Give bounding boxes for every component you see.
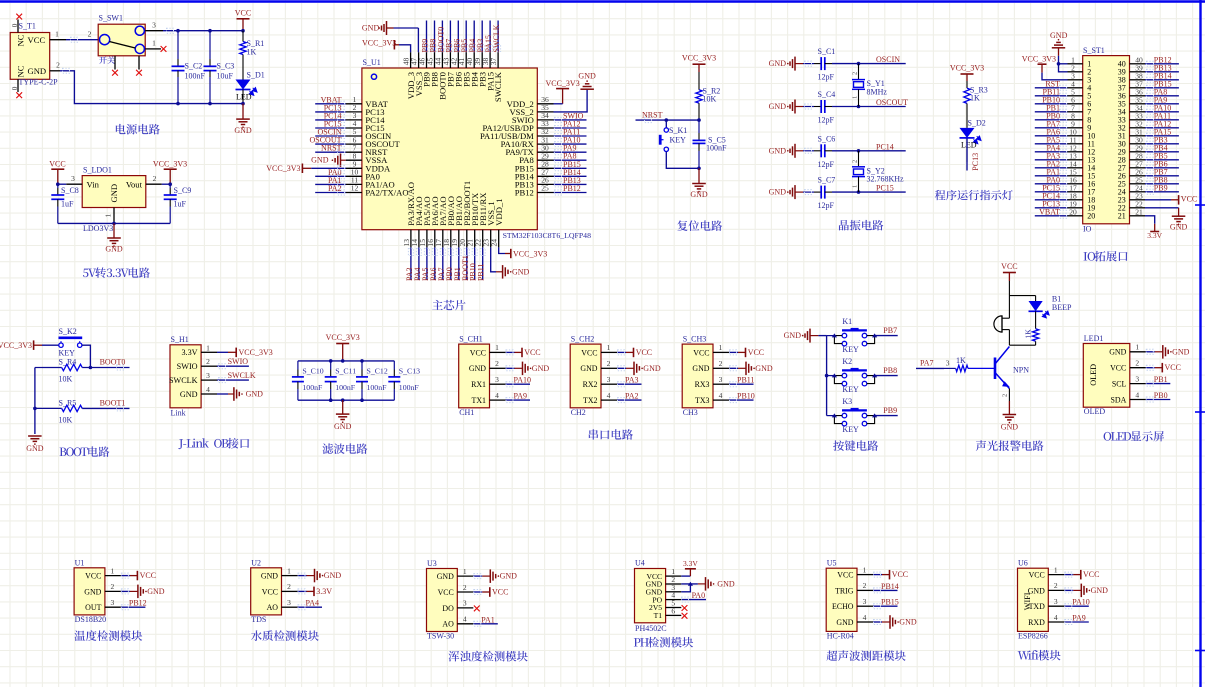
svg-text:10K: 10K: [59, 375, 73, 384]
svg-text:21: 21: [1135, 207, 1143, 216]
svg-text:GND: GND: [690, 190, 708, 199]
wire net PB5 vertical: [465, 21, 467, 53]
svg-text:S_C9: S_C9: [174, 186, 192, 195]
mcu pin 8 VSSA: [346, 159, 362, 161]
ST1 pin 8: [1068, 119, 1083, 121]
ST1 pin 12: [1068, 151, 1083, 153]
wire net PA7: [1035, 127, 1068, 129]
wire SWIO: [217, 365, 249, 367]
S_CH1 pin 1 VCC: [490, 351, 506, 353]
mcu top pin 40 PB4: [473, 52, 475, 68]
svg-text:Link: Link: [171, 409, 186, 418]
svg-text:NRST: NRST: [321, 144, 342, 153]
power VCC U1 pin1: [121, 575, 130, 577]
led S_D1: [242, 55, 244, 80]
wire net PA8: [1145, 95, 1179, 97]
svg-text:VCC: VCC: [1181, 194, 1197, 203]
wire net OSCIN: [315, 135, 346, 137]
ldo ground rail wire: [58, 222, 170, 224]
svg-text:K1: K1: [842, 317, 852, 326]
svg-text:PH4502C: PH4502C: [635, 624, 667, 633]
svg-text:3: 3: [1135, 374, 1139, 383]
wire net PB1: [1146, 383, 1171, 385]
U6 pin 3 TXD: [1048, 605, 1064, 607]
svg-text:KEY: KEY: [842, 385, 859, 394]
wire net PB7: [1145, 175, 1179, 177]
ST1 pin 32: [1130, 127, 1146, 129]
svg-text:DO: DO: [442, 604, 454, 613]
svg-text:S_CH1: S_CH1: [459, 335, 483, 344]
svg-text:1: 1: [206, 343, 210, 352]
wire vcc to key K2: [42, 344, 59, 346]
mcu bottom pin 20 PB2/BOOT1: [466, 230, 468, 248]
SW1 bottom pin a: [114, 56, 116, 70]
svg-text:S_C1: S_C1: [818, 47, 836, 56]
svg-text:S_C7: S_C7: [818, 176, 836, 185]
ST1 pin 4: [1068, 87, 1083, 89]
svg-text:HC-R04: HC-R04: [827, 631, 854, 640]
ST1 pin 31: [1130, 135, 1146, 137]
capacitor S_C7: [803, 191, 814, 193]
title 晶振电路: [839, 220, 849, 230]
wire net PA6 vertical: [434, 247, 436, 280]
power VCC_3V3 at VDD_1: [505, 253, 511, 255]
U3 pin 3 DO: [457, 607, 473, 609]
ST1 pin 33: [1130, 119, 1146, 121]
svg-text:GND: GND: [717, 580, 735, 589]
S_CH3 pin 2 GND: [713, 367, 729, 369]
title OLED显示屏: [1104, 432, 1112, 441]
S_T1 VCC pin 1: [50, 39, 66, 41]
wire net BOOT0 vertical: [441, 21, 443, 53]
svg-text:SWCLK: SWCLK: [169, 376, 198, 385]
svg-text:GND: GND: [1001, 423, 1019, 432]
svg-text:VCC: VCC: [581, 348, 597, 357]
wire K1 to PB7: [875, 335, 898, 337]
ST1 pin 35: [1130, 103, 1146, 105]
title 按键电路: [833, 440, 844, 451]
svg-text:GND: GND: [246, 390, 264, 399]
svg-text:1: 1: [111, 566, 115, 575]
power VCC LED1 pin2: [1146, 367, 1155, 369]
svg-text:VCC: VCC: [524, 348, 540, 357]
wire net PA0: [315, 175, 346, 177]
switch 开关 label: [99, 56, 107, 63]
svg-text:PB10: PB10: [737, 392, 755, 401]
svg-text:VCC: VCC: [636, 348, 652, 357]
junction vout: [168, 182, 172, 186]
svg-text:GND: GND: [105, 245, 123, 254]
mcu pin 25 PB12: [537, 192, 553, 194]
S_CH1 pin 4 TX1: [490, 399, 506, 401]
connector U6 body: [1018, 568, 1049, 631]
svg-text:1K: 1K: [247, 48, 257, 57]
ground GND U2 pin1: [298, 575, 307, 577]
U6 pin 1 VCC: [1048, 574, 1064, 576]
svg-text:LDO3V3: LDO3V3: [83, 224, 113, 233]
svg-text:12pF: 12pF: [818, 73, 835, 82]
mcu pin 29 PA8: [537, 159, 553, 161]
title 电源电路: [116, 124, 126, 134]
svg-text:12pF: 12pF: [818, 116, 835, 125]
svg-text:VCC_3V3: VCC_3V3: [153, 160, 187, 169]
title 主芯片: [432, 300, 443, 310]
wire net PB12: [1145, 63, 1179, 65]
S_T1 bottom pin 0: [17, 79, 19, 92]
svg-text:GND: GND: [147, 587, 165, 596]
ground GND at VSS_1: [496, 271, 503, 273]
svg-text:20: 20: [1087, 212, 1095, 221]
wire OSCOUT: [832, 106, 906, 108]
svg-text:4: 4: [495, 391, 499, 400]
svg-text:21: 21: [1118, 212, 1126, 221]
title Wifi模块: [1018, 651, 1030, 659]
U4 pin 1 VCC: [666, 575, 682, 577]
mcu top pin 41 PB5: [465, 52, 467, 68]
title BOOT电路: [60, 448, 67, 456]
S_T1 GND pin 2: [50, 70, 60, 72]
svg-text:1: 1: [852, 96, 859, 99]
svg-text:GND: GND: [692, 364, 709, 373]
svg-text:VBAT: VBAT: [1039, 207, 1060, 216]
svg-text:PB1: PB1: [1154, 375, 1168, 384]
svg-text:Vout: Vout: [126, 179, 143, 189]
svg-text:VCC: VCC: [85, 572, 101, 581]
no connect x bottom: [16, 92, 22, 98]
ground GND ldo: [113, 223, 115, 238]
ST1 pin 29: [1130, 151, 1146, 153]
svg-text:VCC: VCC: [470, 348, 486, 357]
svg-text:2: 2: [1002, 394, 1009, 397]
crystal S_Y2: [858, 151, 860, 167]
wire K2 to PB8: [875, 375, 898, 377]
S_CH2 pin 3 RX2: [601, 383, 617, 385]
led S_D2: [966, 103, 968, 128]
wire BOOT0 net: [82, 367, 129, 369]
SW1 bottom pin b: [138, 56, 140, 70]
wire net PB11: [729, 383, 754, 385]
connector U5 body: [826, 568, 857, 631]
svg-text:24: 24: [490, 239, 499, 247]
svg-text:VCC: VCC: [693, 348, 709, 357]
svg-text:KEY: KEY: [670, 136, 687, 145]
svg-text:GND: GND: [180, 390, 198, 399]
connector S_CH2 body: [570, 344, 601, 408]
svg-text:TX1: TX1: [472, 396, 487, 405]
svg-text:VCC: VCC: [49, 160, 65, 169]
svg-text:0: 0: [11, 86, 19, 90]
wire net PC15: [315, 127, 346, 129]
wire SW1.3 to VCC rail: [163, 30, 243, 32]
junction y1 bottom: [857, 105, 861, 109]
svg-text:U3: U3: [427, 559, 437, 568]
svg-text:S_LDO1: S_LDO1: [83, 166, 112, 175]
wire net PA10: [506, 383, 531, 385]
svg-text:3: 3: [152, 21, 156, 30]
ST1 pin 30: [1130, 143, 1146, 145]
svg-text:S_C8: S_C8: [61, 186, 79, 195]
title 串口电路: [589, 429, 598, 440]
svg-text:PB12: PB12: [515, 188, 534, 198]
svg-text:RX1: RX1: [471, 380, 486, 389]
svg-text:GND: GND: [1028, 586, 1045, 595]
junction y2 top: [857, 149, 861, 153]
wire net PB7 vertical: [449, 21, 451, 53]
svg-text:PA2: PA2: [625, 392, 639, 401]
U4 pin 4 PO: [666, 599, 682, 601]
power VCC S_CH2 pin1: [617, 351, 626, 353]
ST1 pin 11: [1068, 143, 1083, 145]
S_CH1 pin 3 RX1: [490, 383, 506, 385]
LED1 pin 2 VCC: [1130, 367, 1146, 369]
resistor S_R3: [966, 81, 968, 88]
wire net PA5 vertical: [426, 247, 428, 280]
svg-text:1: 1: [55, 30, 59, 39]
svg-text:S_C11: S_C11: [335, 366, 356, 375]
mcu bottom pin 17 PA7/AO: [442, 230, 444, 248]
U5 pin 2 TRIG: [857, 589, 873, 591]
svg-text:1uF: 1uF: [61, 200, 74, 209]
mcu bottom pin 23 VSS_1: [490, 230, 492, 248]
mcu pin 33 PA12/USB/DP: [537, 127, 553, 129]
capacitor S_C6: [803, 150, 814, 152]
svg-text:S_C12: S_C12: [367, 366, 388, 375]
ST1 pin 13: [1068, 159, 1083, 161]
svg-text:ECHO: ECHO: [832, 602, 854, 611]
svg-text:PC15: PC15: [876, 184, 894, 193]
ground GND U1 pin2: [121, 590, 130, 592]
svg-text:S_C13: S_C13: [399, 366, 420, 375]
svg-text:3: 3: [495, 375, 499, 384]
svg-text:GND: GND: [469, 364, 486, 373]
mcu top pin 42 PB6: [457, 52, 459, 68]
capacitor S_C9: [169, 184, 171, 188]
svg-text:100nF: 100nF: [302, 383, 323, 392]
mcu pin 4 PC15: [346, 127, 362, 129]
junction D1 gnd rail: [241, 102, 245, 106]
wire net PB4: [1145, 151, 1179, 153]
svg-text:S_C6: S_C6: [818, 134, 836, 143]
svg-text:VCC: VCC: [262, 587, 278, 596]
resistor S_R2: [698, 72, 700, 90]
wire net OSCOUT: [315, 143, 346, 145]
svg-text:GND: GND: [769, 102, 787, 111]
svg-text:SWIO: SWIO: [228, 357, 249, 366]
svg-text:2: 2: [863, 581, 867, 590]
sheet border right: [1199, 0, 1201, 687]
svg-text:SDA: SDA: [1111, 395, 1127, 404]
ST1 pin 14: [1068, 167, 1083, 169]
svg-text:PA4: PA4: [306, 599, 320, 608]
LED1 pin 3 SCL: [1130, 383, 1146, 385]
junction nrst-cap: [697, 118, 701, 122]
wire net PB6: [1145, 167, 1179, 169]
svg-text:12: 12: [351, 184, 359, 193]
svg-text:VCC: VCC: [1029, 571, 1045, 580]
svg-text:SWCLK: SWCLK: [492, 24, 501, 52]
junction filter c12 bottom: [360, 398, 364, 402]
connector S_H1 body: [170, 345, 201, 408]
junction C3 top: [208, 29, 212, 33]
wire net PB9: [1145, 191, 1179, 193]
wire U4 gnd pins: [681, 583, 698, 585]
capacitor S_C10 filter: [297, 361, 299, 370]
svg-text:LED: LED: [961, 141, 977, 150]
U4 pin 3 GND: [666, 591, 682, 593]
wire NRST net: [636, 119, 700, 121]
wire rail to K1: [827, 335, 835, 337]
svg-text:OSCOUT: OSCOUT: [876, 98, 908, 107]
wire VSS_1 to ground: [491, 247, 496, 271]
svg-text:PA0: PA0: [692, 591, 706, 600]
svg-text:CH2: CH2: [571, 408, 586, 417]
connector S_CH1 body: [459, 344, 490, 408]
power VCC ST1 pin23: [1145, 199, 1171, 201]
svg-text:SCL: SCL: [1112, 380, 1127, 389]
mcu pin 31 PA10/RX: [537, 143, 553, 145]
ST1 pin 38: [1130, 79, 1146, 81]
svg-text:S_T1: S_T1: [19, 22, 36, 31]
mcu bottom pin 18 PB0/AO: [450, 230, 452, 248]
svg-text:1: 1: [1135, 343, 1139, 352]
svg-text:3: 3: [607, 375, 611, 384]
ST1 pin 25: [1130, 183, 1146, 185]
H1 pin 3 SWCLK: [201, 379, 217, 381]
wire PC15: [832, 191, 906, 193]
svg-text:AO: AO: [442, 620, 454, 629]
wire net PA7 vertical: [442, 247, 444, 280]
svg-text:KEY: KEY: [842, 425, 859, 434]
title 浑浊度检测模块: [449, 651, 460, 662]
ground GND at VSSA pin8: [340, 154, 342, 168]
svg-text:2: 2: [495, 359, 499, 368]
wire net VBAT: [315, 103, 346, 105]
junction C2 bottom: [176, 102, 180, 106]
svg-text:OUT: OUT: [85, 603, 101, 612]
svg-text:10uF: 10uF: [217, 72, 234, 81]
U6 pin 2 GND: [1048, 589, 1064, 591]
wire rail to K3: [827, 415, 835, 417]
svg-text:PA10: PA10: [514, 376, 532, 385]
svg-text:S_CH3: S_CH3: [683, 335, 707, 344]
capacitor S_C4: [803, 106, 814, 108]
svg-text:TX3: TX3: [695, 396, 710, 405]
ground GND S_CH3 pin2: [729, 367, 738, 369]
U3 pin 1 GND: [457, 575, 473, 577]
U3 pin 2 VCC: [457, 591, 473, 593]
svg-text:2: 2: [1054, 581, 1058, 590]
title 超声波测距模块: [826, 650, 837, 661]
wire net RST: [1035, 87, 1068, 89]
ground GND U3 pin1: [473, 575, 482, 577]
svg-text:PB7: PB7: [883, 326, 897, 335]
svg-text:1: 1: [104, 214, 113, 218]
ST1 pin 7: [1068, 111, 1083, 113]
svg-text:VCC: VCC: [1001, 262, 1017, 271]
svg-text:37: 37: [489, 58, 498, 66]
svg-text:S_C2: S_C2: [185, 62, 203, 71]
svg-text:GND: GND: [84, 587, 101, 596]
svg-text:PA1: PA1: [481, 615, 495, 624]
svg-text:GND: GND: [532, 364, 550, 373]
svg-text:3: 3: [287, 598, 291, 607]
mcu pin 5 OSCIN: [346, 135, 362, 137]
mcu top pin 48 VDD_3: [410, 52, 412, 68]
wire net PA4 vertical: [418, 247, 420, 280]
resistor S_R1: [242, 31, 244, 42]
svg-text:OLED: OLED: [1084, 407, 1106, 416]
svg-text:U1: U1: [75, 558, 85, 567]
S_CH2 pin 1 VCC: [601, 351, 617, 353]
mcu pin 34 SWIO: [537, 119, 553, 121]
ground GND at VSS_2 pin35: [554, 89, 588, 112]
capacitor S_C11 filter: [330, 361, 332, 370]
wire net SWCLK vertical: [497, 21, 499, 53]
svg-text:2: 2: [1135, 359, 1139, 368]
wire net PA6: [1035, 135, 1068, 137]
svg-text:PB9: PB9: [1154, 183, 1168, 192]
svg-text:TXD: TXD: [1029, 602, 1046, 611]
ground GND S_CH2 pin2: [617, 367, 626, 369]
svg-text:PA3: PA3: [625, 376, 639, 385]
wire net PB11 vertical: [482, 247, 484, 280]
svg-text:1K: 1K: [1023, 329, 1032, 339]
wire net PA15: [1145, 135, 1179, 137]
ground GND jlink: [217, 393, 228, 395]
wire net PA1: [315, 183, 346, 185]
svg-text:AO: AO: [267, 603, 279, 612]
svg-text:VCC: VCC: [140, 571, 156, 580]
svg-text:100nF: 100nF: [335, 383, 356, 392]
svg-text:KEY: KEY: [59, 349, 76, 358]
svg-text:GND: GND: [580, 364, 597, 373]
crystal S_Y1: [858, 64, 860, 80]
power 3.3V U4 pin1: [681, 575, 690, 577]
svg-text:S_ST1: S_ST1: [1083, 46, 1105, 55]
junction cap gnd: [697, 167, 701, 171]
mcu bottom pin 15 PA5/AO: [426, 230, 428, 248]
svg-text:CH1: CH1: [459, 408, 474, 417]
svg-text:TRIG: TRIG: [835, 586, 854, 595]
power VCC S_CH3 pin1: [729, 351, 738, 353]
ST1 pin 6: [1068, 103, 1083, 105]
mcu pin 10 PA0: [346, 175, 362, 177]
title 5V转3.3V电路: [83, 269, 88, 278]
svg-text:SWCLK: SWCLK: [493, 71, 503, 102]
junction filter gnd stem: [341, 398, 345, 402]
svg-text:S_D1: S_D1: [247, 71, 265, 80]
svg-text:GND: GND: [512, 267, 530, 276]
svg-text:TDS: TDS: [251, 615, 266, 624]
junction VCC rail: [241, 29, 245, 33]
svg-text:VCC: VCC: [492, 588, 508, 597]
mcu pin 3 PC14: [346, 119, 362, 121]
S_CH3 pin 4 TX3: [713, 399, 729, 401]
svg-text:KEY: KEY: [842, 345, 859, 354]
ST1 pin 24: [1130, 191, 1146, 193]
svg-text:IO: IO: [1083, 225, 1092, 234]
svg-text:STM32F103C8T6_LQFP48: STM32F103C8T6_LQFP48: [503, 231, 591, 240]
wire net PA1: [473, 623, 498, 625]
wire net PA9: [1145, 103, 1179, 105]
svg-text:3.3V: 3.3V: [181, 348, 197, 357]
svg-text:GND: GND: [784, 331, 802, 340]
wire net PA11: [1145, 119, 1179, 121]
junction filter c12 top: [360, 359, 364, 363]
wire net PA15 vertical: [489, 21, 491, 53]
wire T1.GND down to ground rail: [60, 71, 243, 104]
ST1 pin 37: [1130, 87, 1146, 89]
